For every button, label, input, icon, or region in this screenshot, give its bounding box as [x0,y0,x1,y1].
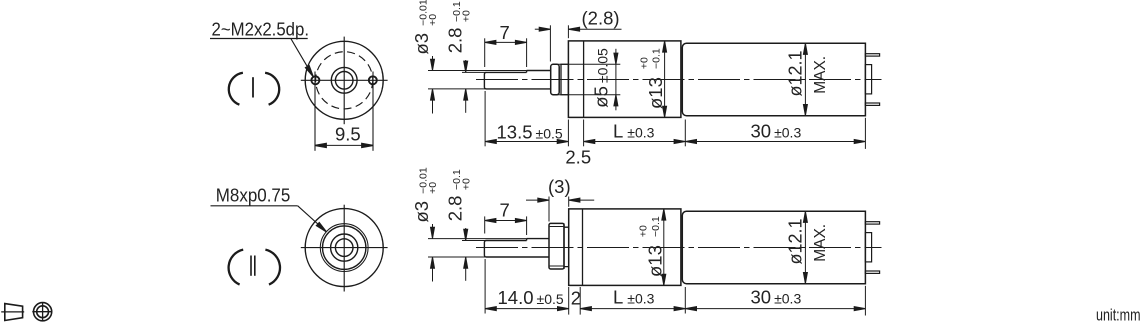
svg-text:ø12.1: ø12.1 [786,50,806,96]
svg-text:ø12.1: ø12.1 [786,218,806,264]
svg-text:30±0.3: 30±0.3 [751,287,802,308]
svg-text:ø3+0−0.01: ø3+0−0.01 [411,0,439,55]
svg-text:(3): (3) [548,176,571,197]
svg-text:2.8+0−0.1: 2.8+0−0.1 [445,1,473,53]
svg-text:2~M2x2.5dp.: 2~M2x2.5dp. [212,18,310,39]
svg-text:7: 7 [500,200,510,221]
svg-text:13.5±0.5: 13.5±0.5 [497,121,563,142]
svg-text:(2.8): (2.8) [582,7,620,28]
svg-text:2.5: 2.5 [565,147,591,168]
svg-text:L±0.3: L±0.3 [613,287,655,308]
svg-text:ø3+0−0.01: ø3+0−0.01 [411,167,439,222]
svg-text:MAX.: MAX. [812,224,829,262]
svg-text:2.8+0−0.1: 2.8+0−0.1 [445,169,473,221]
svg-text:MAX.: MAX. [812,56,829,94]
svg-text:2: 2 [571,288,581,309]
svg-text:unit:mm: unit:mm [1096,307,1141,325]
svg-text:M8xp0.75: M8xp0.75 [216,185,290,206]
svg-text:L±0.3: L±0.3 [613,121,655,142]
svg-text:ø13+0−0.1: ø13+0−0.1 [638,216,666,277]
svg-text:30±0.3: 30±0.3 [751,121,802,142]
svg-text:9.5: 9.5 [335,124,361,145]
svg-text:ø13+0−0.1: ø13+0−0.1 [638,48,666,109]
svg-text:7: 7 [500,22,510,43]
svg-text:14.0±0.5: 14.0±0.5 [498,287,564,308]
svg-text:ø5±0.05: ø5±0.05 [591,48,612,108]
